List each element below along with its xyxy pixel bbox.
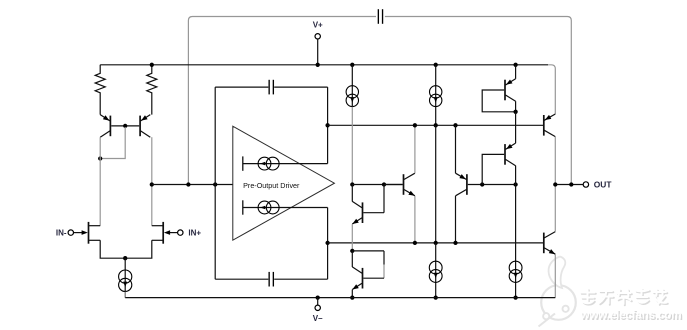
terminal IN- [68,230,73,235]
svg-text:V+: V+ [313,21,323,30]
node driver box to lower rail junction [325,241,329,245]
node QD1 collector junction [513,110,517,114]
svg-text:IN+: IN+ [188,228,201,237]
node V+ rail junction [316,63,320,67]
driver box right edge upper [327,87,329,164]
transistor QP2 (PNP driver) [456,173,467,196]
wire V- rail [125,297,555,299]
driver box left edge [214,87,216,279]
watermark elecfans logo and text [539,257,683,327]
transistor QOT (PNP output, common-emitter) [544,114,556,137]
current source I1 (input tail) [119,258,132,297]
wire Q2 collector to J2 drain (gray) [151,137,153,226]
capacitor C2 (driver box top) [269,80,273,95]
svg-text:www.elecfans.com: www.elecfans.com [580,309,682,322]
wire QB base loop [352,251,384,278]
wire Q1 collector to J1 drain (gray) [99,137,101,226]
resistor R2 (right load) [147,65,157,115]
node bias column lower rail junction [434,241,438,245]
node drive node A [350,182,354,186]
jfet J1 (inverting input) [74,222,101,244]
wire QP2 emitter from mid rail [455,125,457,173]
wire QN1 base [384,184,403,186]
node driver box to mid rail junction [325,123,329,127]
terminal OUT [583,182,588,187]
transistor QOB (NPN output, common-emitter) [544,232,556,255]
label OUT [594,179,613,189]
node Q1 collector junction [98,156,102,160]
node CS I4 top junction [350,63,354,67]
wire mirror base to Q1 collector (gray) [100,127,125,159]
current source I7 (lower bias right) [509,261,522,282]
wire mid rail (PNP emitter rail) [328,124,543,126]
transistor QN1 (NPN driver) [404,173,415,196]
op-amp U1 (pre-output driver triangle) [233,126,335,240]
wire V+ rail [100,64,548,66]
wire QN1 emitter to lower rail (gray) [414,196,416,243]
node QB junction [350,249,354,253]
resistor R1 (left load) [95,65,105,115]
svg-text:Pre-Output Driver: Pre-Output Driver [243,181,300,190]
transistor Q1 (PNP current-mirror, diode-connected) [100,115,110,138]
node driver box input junction [213,182,217,186]
wire QOT collector to OUT (gray) [554,137,556,185]
label Pre-Output Driver [243,181,300,190]
node R2 top junction [150,63,154,67]
wire QA emitter drop (gray) [351,224,353,251]
node QD1 emitter junction [513,63,517,67]
terminal IN+ [178,230,183,235]
node I5 mid rail junction [434,123,438,127]
svg-text:IN-: IN- [56,228,67,237]
label IN- [56,228,67,237]
node drive node B [513,182,517,186]
node QN1 collector junction [413,123,417,127]
wire QOB collector to OUT (gray) [554,185,556,232]
transistor QD2 (PNP diode, bottom) [482,112,515,185]
node mirror base junction [123,124,127,128]
node QD2 base-loop junction [480,182,484,186]
node QN1 emitter junction [413,241,417,245]
node QO collectors OUT junction [553,182,557,186]
current source I2 (driver bias upper) [243,156,328,170]
node Q2 collector / signal takeoff [150,182,154,186]
label V+ [313,21,323,30]
wire input signal line [152,184,233,186]
jfet J2 (non-inverting input) [152,222,178,244]
label V- [313,314,323,323]
label IN+ [188,228,201,237]
wire V+ rail right bend to output PNP emitter (gray) [548,65,555,114]
node QA base-collector junction [382,182,386,186]
transistor QA (NPN diode, bias stack top) [352,185,384,225]
wire QB emitter to V- rail [351,290,353,298]
transistor QD1 (PNP diode, top) [482,65,515,112]
wire QOB emitter to V- rail (gray) [554,254,556,297]
wire top compensation loop (left half, gray) [188,17,376,184]
node V- junction [316,295,320,299]
wire top compensation loop (right half, gray) [385,17,571,185]
wire I4 to drive node (gray) [351,107,353,185]
current source I6 (lower bias left) [429,243,442,298]
capacitor C3 (driver box bottom) [269,272,273,287]
current source I4 (first stage bias) [346,65,358,107]
wire QN1 collector to mid rail (gray) [414,125,416,173]
wire drive node B down through lower rail [515,185,517,298]
driver box bottom edge [215,278,327,280]
wire QP2 collector to lower rail [455,196,457,243]
wire OUT line [555,184,583,186]
transistor Q2 (PNP current-mirror) [140,115,150,138]
node compensation tap junction [186,182,190,186]
driver box top edge [215,86,327,88]
node I7 bottom junction [513,295,517,299]
wire Q1-Q2 base link [111,125,139,127]
current source I5 (second bias column) [430,65,442,126]
node I6 bottom junction [434,295,438,299]
driver box right edge lower [327,208,329,280]
wire QP2 base line [468,184,516,186]
terminal V- [315,298,320,311]
terminal V+ [315,34,320,65]
wire bias column x435 [435,125,437,243]
node tail junction [123,256,127,260]
node CS I5 top junction [434,63,438,67]
current source I3 (driver bias lower) [243,200,328,214]
wire drive line A [352,184,402,186]
svg-text:OUT: OUT [594,179,613,189]
wire lower rail (output NPN base rail) [328,242,543,244]
transistor QB (NPN diode, bias stack bottom) [352,251,362,290]
svg-text:V–: V– [313,314,323,323]
node QP2 emitter junction [453,123,457,127]
capacitor C1 (compensation, top loop) [378,9,382,24]
node compensation loop OUT junction [569,182,573,186]
wire J1 source to tail [100,240,152,258]
node QB emitter junction [350,295,354,299]
node QP2 collector junction [453,241,457,245]
